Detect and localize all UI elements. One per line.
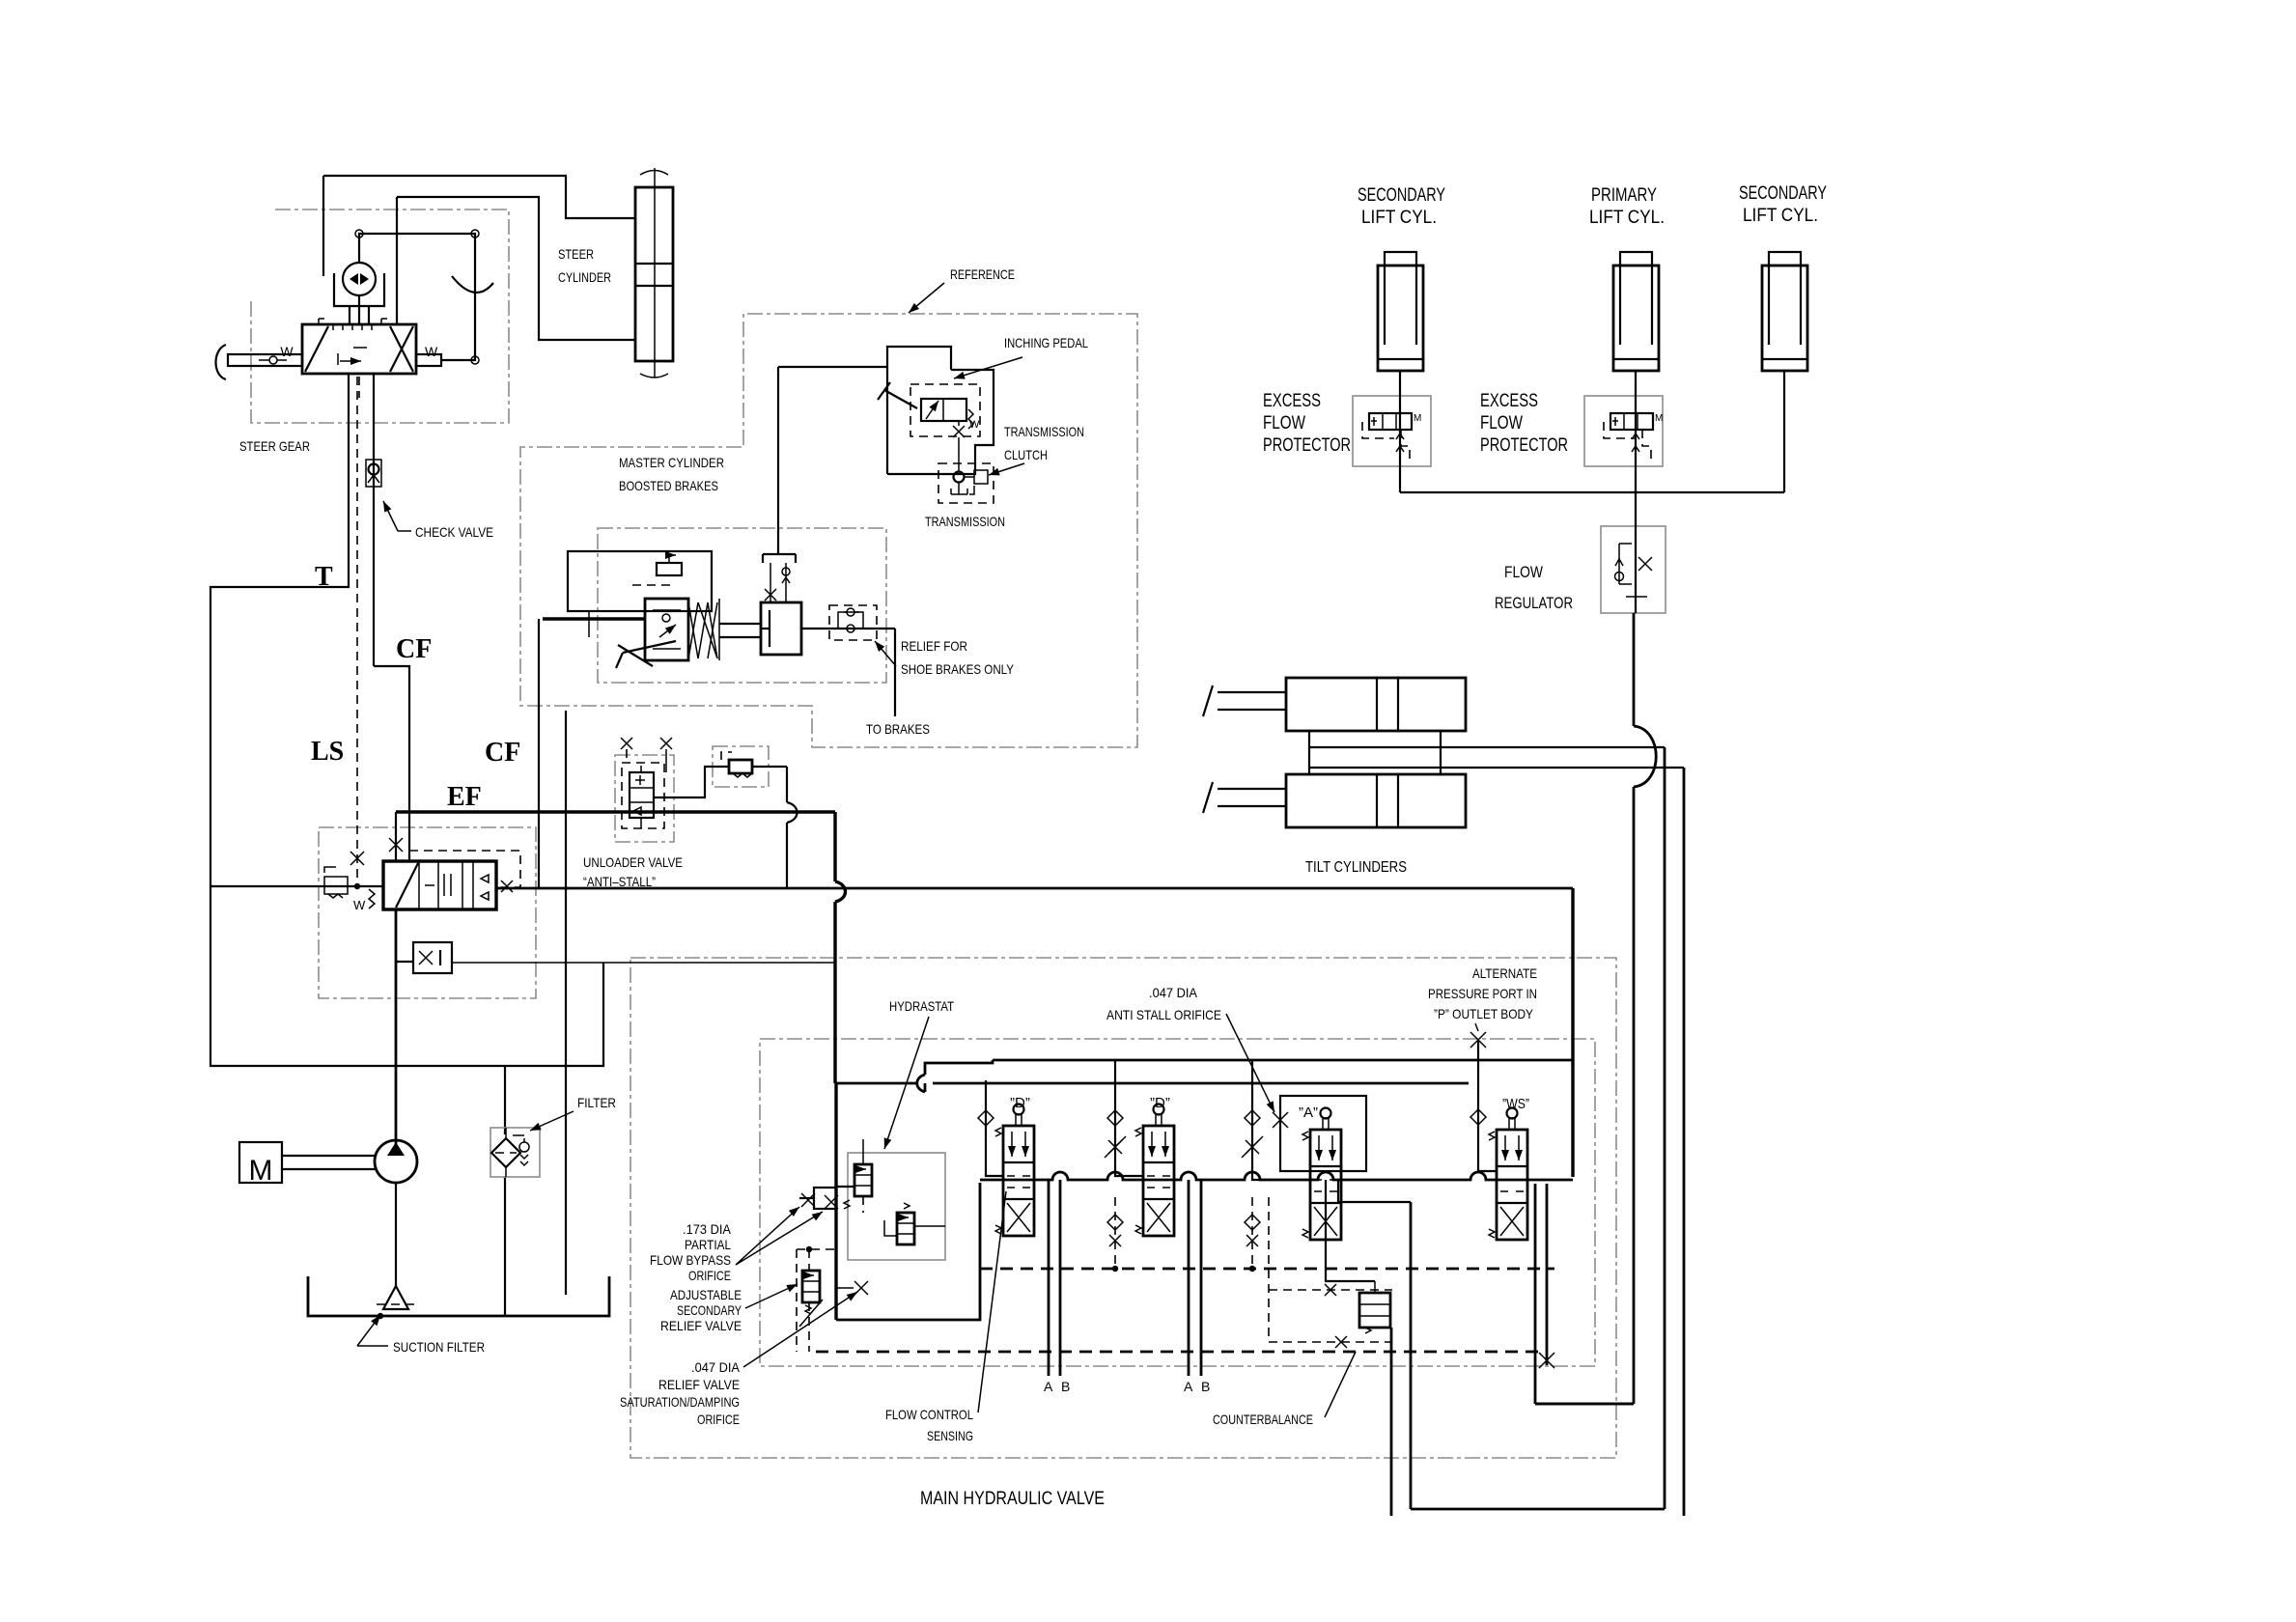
- svg-text:.047 DIA: .047 DIA: [1149, 985, 1198, 1000]
- svg-text:FILTER: FILTER: [577, 1095, 616, 1110]
- svg-text:A: A: [1184, 1379, 1193, 1394]
- svg-text:CF: CF: [485, 738, 520, 768]
- svg-text:TILT CYLINDERS: TILT CYLINDERS: [1305, 859, 1407, 876]
- svg-text:PARTIAL: PARTIAL: [685, 1237, 731, 1252]
- svg-text:EF: EF: [447, 782, 482, 812]
- svg-text:T: T: [315, 562, 333, 592]
- svg-text:STEER GEAR: STEER GEAR: [239, 438, 310, 454]
- svg-text:.173 DIA: .173 DIA: [683, 1221, 732, 1237]
- svg-text:LS: LS: [311, 737, 344, 767]
- svg-text:W: W: [353, 898, 366, 912]
- svg-text:REGULATOR: REGULATOR: [1495, 594, 1573, 612]
- svg-text:BOOSTED BRAKES: BOOSTED BRAKES: [619, 478, 718, 493]
- svg-text:SECONDARY: SECONDARY: [677, 1302, 742, 1318]
- svg-text:ANTI STALL ORIFICE: ANTI STALL ORIFICE: [1106, 1007, 1221, 1022]
- svg-text:M: M: [1414, 413, 1421, 424]
- svg-text:HYDRASTAT: HYDRASTAT: [889, 998, 954, 1014]
- svg-text:.047 DIA: .047 DIA: [691, 1359, 741, 1375]
- svg-text:RELIEF FOR: RELIEF FOR: [901, 638, 967, 654]
- svg-text:RELIEF VALVE: RELIEF VALVE: [658, 1377, 740, 1392]
- svg-text:MAIN HYDRAULIC VALVE: MAIN HYDRAULIC VALVE: [920, 1489, 1105, 1509]
- svg-text:LIFT CYL.: LIFT CYL.: [1589, 208, 1665, 228]
- svg-text:REFERENCE: REFERENCE: [950, 266, 1015, 282]
- svg-text:”WS”: ”WS”: [1502, 1096, 1529, 1112]
- svg-text:TRANSMISSION: TRANSMISSION: [1004, 424, 1084, 439]
- svg-text:CYLINDER: CYLINDER: [558, 269, 611, 285]
- svg-text:STEER: STEER: [558, 246, 594, 262]
- svg-text:MASTER CYLINDER: MASTER CYLINDER: [619, 455, 724, 470]
- svg-text:CF: CF: [396, 634, 432, 664]
- svg-text:B: B: [1061, 1379, 1070, 1394]
- svg-text:M: M: [249, 1155, 273, 1187]
- svg-text:CHECK VALVE: CHECK VALVE: [415, 524, 493, 540]
- svg-text:SECONDARY: SECONDARY: [1739, 183, 1827, 204]
- svg-text:FLOW: FLOW: [1480, 413, 1523, 433]
- svg-text:M: M: [1655, 413, 1663, 424]
- svg-text:PRIMARY: PRIMARY: [1591, 185, 1657, 206]
- svg-text:ORIFICE: ORIFICE: [688, 1268, 731, 1283]
- svg-text:SECONDARY: SECONDARY: [1358, 185, 1445, 206]
- svg-text:FLOW CONTROL: FLOW CONTROL: [885, 1407, 973, 1422]
- svg-text:SHOE BRAKES ONLY: SHOE BRAKES ONLY: [901, 661, 1015, 677]
- svg-text:SATURATION/DAMPING: SATURATION/DAMPING: [620, 1394, 740, 1410]
- svg-text:UNLOADER VALVE: UNLOADER VALVE: [583, 854, 683, 870]
- svg-text:COUNTERBALANCE: COUNTERBALANCE: [1213, 1412, 1313, 1427]
- svg-text:FLOW: FLOW: [1504, 563, 1543, 581]
- svg-text:TRANSMISSION: TRANSMISSION: [925, 514, 1005, 529]
- svg-text:CLUTCH: CLUTCH: [1004, 447, 1048, 462]
- svg-text:EXCESS: EXCESS: [1263, 391, 1321, 411]
- svg-text:PRESSURE PORT IN: PRESSURE PORT IN: [1428, 986, 1537, 1001]
- svg-text:ADJUSTABLE: ADJUSTABLE: [670, 1287, 742, 1302]
- svg-text:SUCTION FILTER: SUCTION FILTER: [393, 1339, 485, 1355]
- svg-text:ORIFICE: ORIFICE: [697, 1412, 740, 1427]
- svg-text:FLOW: FLOW: [1263, 413, 1305, 433]
- svg-text:TO BRAKES: TO BRAKES: [866, 721, 930, 737]
- svg-text:”P” OUTLET BODY: ”P” OUTLET BODY: [1434, 1006, 1534, 1021]
- svg-text:W: W: [425, 344, 438, 359]
- svg-text:INCHING PEDAL: INCHING PEDAL: [1004, 335, 1088, 350]
- svg-text:ALTERNATE: ALTERNATE: [1472, 965, 1537, 981]
- svg-text:PROTECTOR: PROTECTOR: [1263, 435, 1351, 456]
- svg-text:W: W: [969, 419, 980, 431]
- svg-text:PROTECTOR: PROTECTOR: [1480, 435, 1568, 456]
- svg-text:LIFT CYL.: LIFT CYL.: [1743, 206, 1818, 226]
- svg-text:SENSING: SENSING: [927, 1428, 973, 1443]
- svg-text:A: A: [1044, 1379, 1053, 1394]
- svg-text:”D”: ”D”: [1010, 1095, 1030, 1111]
- svg-text:B: B: [1201, 1379, 1210, 1394]
- svg-text:EXCESS: EXCESS: [1480, 391, 1538, 411]
- svg-text:RELIEF VALVE: RELIEF VALVE: [660, 1318, 742, 1333]
- svg-text:FLOW BYPASS: FLOW BYPASS: [650, 1252, 731, 1268]
- svg-text:”D”: ”D”: [1150, 1095, 1170, 1111]
- svg-text:W: W: [280, 344, 294, 359]
- svg-text:LIFT CYL.: LIFT CYL.: [1361, 208, 1437, 228]
- svg-text:”A”: ”A”: [1299, 1105, 1318, 1121]
